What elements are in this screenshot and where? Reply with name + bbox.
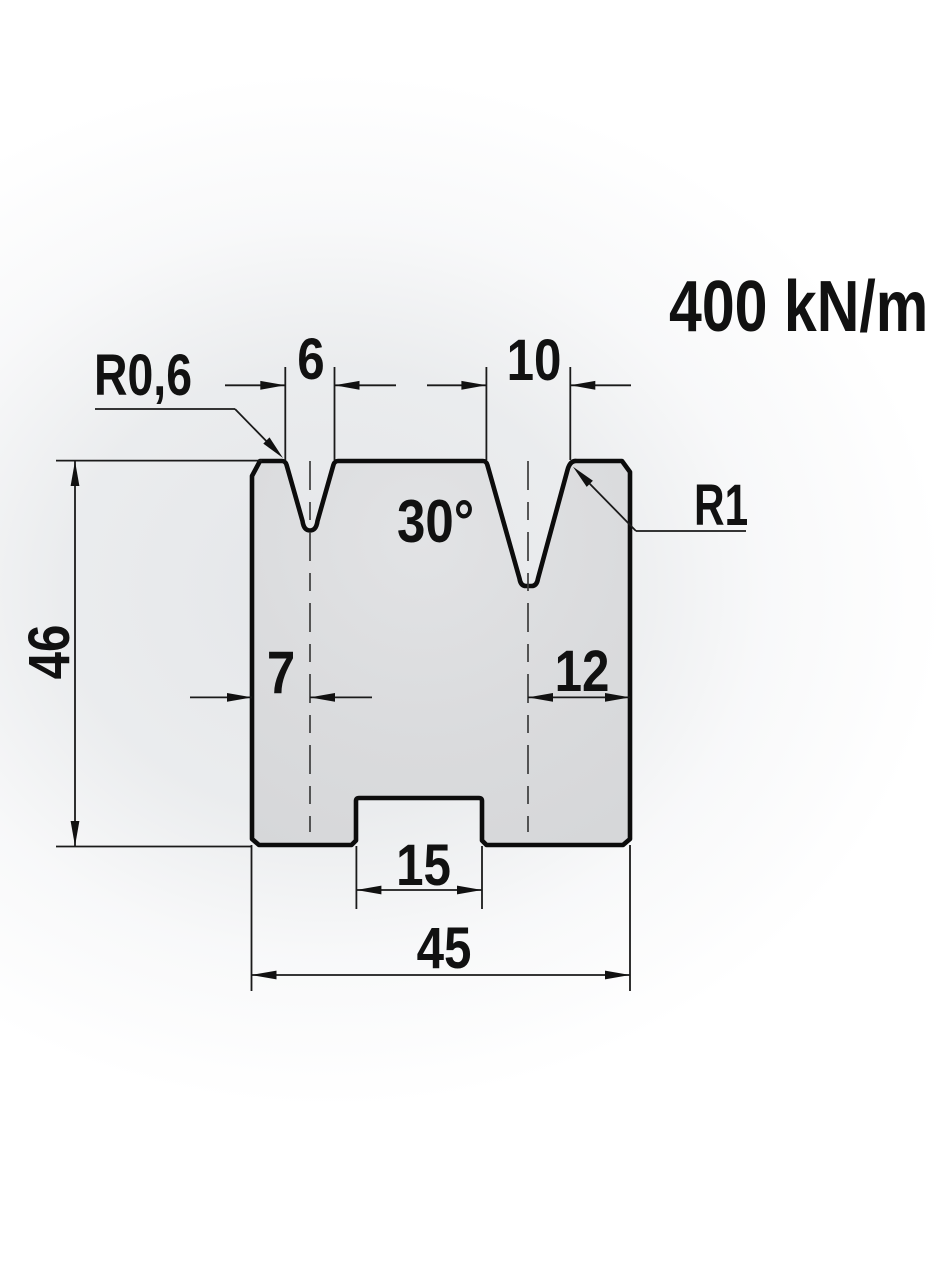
dimension 10: dimension line + arrows (427, 381, 631, 390)
dimension 15: extension lines (356, 846, 482, 909)
svg-text:46: 46 (17, 625, 82, 680)
svg-text:12: 12 (555, 639, 610, 704)
dimension 6: extension lines (285, 367, 334, 460)
centerline of left V groove (309, 461, 311, 832)
svg-text:R0,6: R0,6 (94, 343, 192, 408)
svg-text:7: 7 (267, 639, 295, 706)
dimension 46: extension lines (56, 461, 262, 847)
svg-text:30°: 30° (397, 488, 474, 555)
dimension 15: dimension line + arrows (356, 886, 482, 895)
svg-text:10: 10 (507, 328, 562, 393)
die body outline (45x46 block with two V grooves and bottom slot) (252, 461, 630, 845)
dimension 6: dimension line + arrows (225, 381, 396, 390)
dimension 7: arrows (190, 693, 372, 702)
dimension 12: dimension line + arrows (528, 693, 630, 702)
dimension 45: dimension line + arrows (252, 971, 631, 980)
svg-text:400 kN/m: 400 kN/m (669, 265, 928, 346)
svg-text:45: 45 (417, 916, 472, 981)
dimension 46: dimension line + arrows (71, 461, 80, 846)
svg-text:R1: R1 (694, 472, 748, 537)
dimension 10: extension lines (486, 367, 570, 460)
leader R0,6 (95, 409, 283, 458)
svg-text:6: 6 (297, 327, 324, 392)
centerline of right V groove (527, 461, 529, 832)
svg-text:15: 15 (396, 833, 451, 898)
leader R1 (573, 467, 746, 531)
dimension 45: extension lines (252, 845, 631, 991)
